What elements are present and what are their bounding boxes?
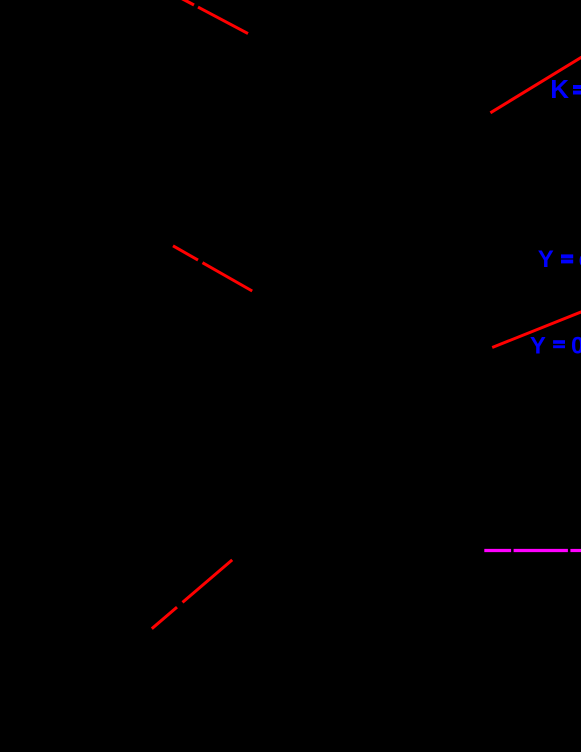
wire: red dashed leader line C segment 1 (middle left) — [173, 246, 198, 260]
wire: red dashed leader line E segment 2 — [183, 560, 233, 603]
svg-text:Y: Y — [538, 246, 554, 273]
svg-text:Y: Y — [530, 332, 546, 359]
wire: red leader line D (to label Y = 0) — [492, 312, 581, 348]
wire: red dashed leader line A segment 1 (top left, cropped by top edge) — [177, 0, 195, 5]
wire: magenta dashed line dash 3 (cropped at right edge) — [570, 549, 581, 552]
svg-text:0: 0 — [571, 332, 581, 359]
wire: red dashed leader line C segment 2 — [203, 263, 253, 291]
wire: red dashed leader line A segment 2 — [198, 7, 248, 33]
wire: magenta dashed line dash 2 — [514, 549, 568, 552]
svg-text:K: K — [550, 74, 569, 104]
wire: magenta dashed line dash 1 — [484, 549, 511, 552]
wire: red leader line B (to label K =) — [490, 57, 581, 113]
wire: red dashed leader line E segment 1 (bottom left) — [152, 607, 177, 629]
